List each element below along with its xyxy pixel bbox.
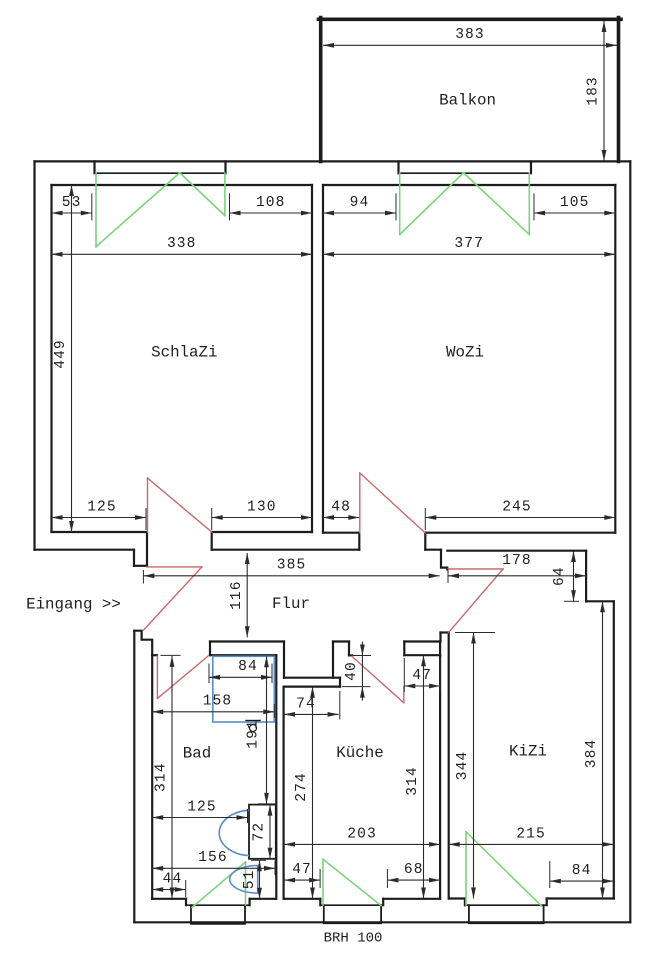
- svg-text:BRH 100: BRH 100: [324, 931, 383, 947]
- svg-text:47: 47: [412, 668, 432, 684]
- svg-text:344: 344: [455, 751, 471, 781]
- svg-text:51: 51: [242, 870, 258, 890]
- svg-text:383: 383: [455, 27, 485, 43]
- svg-text:94: 94: [350, 195, 370, 211]
- svg-text:SchlaZi: SchlaZi: [151, 344, 217, 362]
- svg-text:314: 314: [405, 766, 421, 796]
- svg-text:384: 384: [584, 739, 600, 769]
- svg-text:68: 68: [404, 862, 424, 878]
- svg-text:84: 84: [572, 863, 592, 879]
- svg-text:WoZi: WoZi: [446, 344, 484, 362]
- svg-text:105: 105: [560, 195, 590, 211]
- svg-text:64: 64: [552, 566, 568, 586]
- svg-text:245: 245: [502, 499, 532, 515]
- svg-text:Küche: Küche: [336, 744, 383, 762]
- svg-text:72: 72: [252, 822, 268, 842]
- svg-text:449: 449: [53, 339, 69, 369]
- svg-text:203: 203: [347, 826, 377, 842]
- svg-text:Eingang >>: Eingang >>: [26, 596, 121, 614]
- svg-text:44: 44: [163, 871, 183, 887]
- svg-text:314: 314: [154, 762, 170, 792]
- svg-text:KiZi: KiZi: [509, 743, 547, 761]
- svg-text:377: 377: [454, 236, 484, 252]
- svg-text:178: 178: [502, 553, 532, 569]
- svg-text:125: 125: [187, 799, 217, 815]
- svg-text:158: 158: [203, 694, 233, 710]
- svg-text:215: 215: [516, 826, 546, 842]
- svg-text:47: 47: [292, 862, 312, 878]
- svg-text:84: 84: [238, 659, 258, 675]
- svg-text:191: 191: [245, 719, 261, 749]
- svg-text:125: 125: [87, 499, 117, 515]
- svg-text:385: 385: [277, 558, 307, 574]
- svg-text:338: 338: [167, 236, 197, 252]
- svg-text:40: 40: [344, 661, 360, 681]
- svg-text:Balkon: Balkon: [439, 92, 496, 110]
- svg-text:274: 274: [294, 772, 310, 802]
- svg-text:116: 116: [229, 580, 245, 610]
- svg-text:Bad: Bad: [183, 745, 211, 763]
- svg-text:48: 48: [331, 499, 351, 515]
- svg-text:183: 183: [586, 76, 602, 106]
- svg-text:108: 108: [256, 195, 286, 211]
- svg-text:Flur: Flur: [272, 595, 310, 613]
- svg-text:156: 156: [198, 850, 228, 866]
- svg-text:130: 130: [247, 499, 277, 515]
